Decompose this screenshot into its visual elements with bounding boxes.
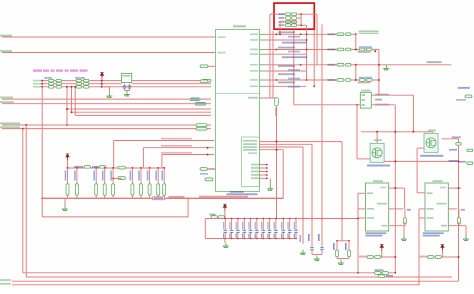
junction bus/capbus bbox=[357, 218, 359, 220]
wire phase C-D join bbox=[355, 65, 357, 80]
cap name text 10 bbox=[281, 234, 282, 239]
wire spi stub bbox=[208, 168, 216, 170]
resistor R11 b bbox=[56, 83, 62, 86]
cap value cluster 4 bbox=[288, 78, 300, 80]
junction pulldown/pwm1 bbox=[276, 141, 278, 143]
wire pwm echo 1 bbox=[260, 141, 343, 143]
power flag VDD mcu bbox=[100, 72, 104, 78]
net name PWM_DRIVER_GS_GA2_H bbox=[161, 152, 192, 154]
wire pwr vertical x42 bbox=[41, 87, 43, 217]
junction bootL2 bbox=[41, 83, 43, 85]
wire shunt row1 out bbox=[297, 13, 317, 15]
capacitor C101 b bbox=[366, 48, 372, 51]
label 90_W bbox=[375, 99, 382, 101]
cap value text 10 bbox=[281, 222, 282, 230]
junction phase vertical C bbox=[378, 64, 380, 66]
junction pwm3 bbox=[207, 154, 209, 156]
ground tail B bbox=[314, 256, 320, 261]
capacitor C300 bbox=[224, 219, 226, 239]
pin stub y71 bbox=[260, 70, 267, 72]
resistor value text b x149.6 bbox=[147, 171, 149, 181]
wire gnd pin 168.0 bbox=[260, 167, 267, 169]
net flag FAULT_A bbox=[195, 102, 206, 105]
capacitor C303 bbox=[243, 219, 245, 239]
pin GATE bbox=[367, 192, 373, 194]
pin stub y34.3 bbox=[260, 33, 267, 35]
connector pill a bbox=[375, 272, 382, 275]
wire bottom rail 2 bbox=[26, 276, 452, 278]
cap name text 4 bbox=[242, 234, 243, 239]
junction echo2/capbus bbox=[311, 218, 313, 220]
cap value text 2 bbox=[229, 222, 230, 230]
wire gnd pin 178.3 bbox=[260, 177, 267, 179]
junction rail x113.1 bbox=[112, 167, 114, 169]
cap value text 8 bbox=[267, 222, 268, 230]
cap name text 12 bbox=[294, 234, 295, 239]
label IC506 bbox=[373, 180, 383, 182]
pin stub y86.3 bbox=[260, 85, 267, 87]
wire tp A link bbox=[381, 256, 395, 258]
part number IC505 row2 bbox=[423, 235, 440, 237]
net name cluster 1 bbox=[278, 31, 295, 33]
wire net L_PWM_B bbox=[2, 52, 216, 54]
IC IC506 half-bridge bbox=[365, 183, 388, 231]
wire IC506 pgnd in bbox=[358, 217, 365, 219]
connector pill c bbox=[378, 275, 385, 278]
resistor value text x76.9 bbox=[74, 171, 76, 181]
junction pulldown/capbus bbox=[276, 218, 278, 220]
junction frame/fet drop bbox=[356, 104, 358, 106]
wire nSLEEP bbox=[72, 111, 212, 113]
wire pwm echo 3 drop bbox=[302, 147, 304, 244]
part number IC505 row1 bbox=[423, 232, 444, 234]
power flag VM tp B bbox=[441, 244, 445, 250]
label IC401 bbox=[233, 25, 246, 27]
capacitor C302 bbox=[237, 219, 239, 239]
ferrite bead FB4 bbox=[337, 79, 344, 82]
part number T4B8 text bbox=[420, 155, 443, 157]
label BOOT2 bbox=[33, 86, 41, 88]
junction echo3/capbus bbox=[302, 218, 304, 220]
resistor value text x104.7 bbox=[102, 171, 104, 181]
junction sense 306.6,49.5 bbox=[306, 49, 308, 51]
resistor R21 b bbox=[84, 83, 90, 86]
label C10 cluster 1 bbox=[359, 46, 372, 48]
resistor shunt R30 b bbox=[291, 13, 297, 16]
resistor gate b x132.4 bbox=[131, 168, 134, 198]
wire pwm driver 1 bbox=[114, 140, 214, 142]
wire gnd pins drop bbox=[269, 178, 271, 185]
junction shunt top bbox=[300, 13, 302, 15]
junction cap top 4 bbox=[243, 218, 245, 220]
ground cap bank bbox=[223, 243, 229, 248]
resistor value vertical text bbox=[275, 108, 277, 117]
wire buck fb bbox=[371, 104, 395, 106]
junction cap bottom 3 bbox=[237, 238, 239, 240]
testpoint TP50b pill2 bbox=[435, 256, 442, 259]
wire IC505 gate out bbox=[448, 208, 457, 210]
pin name SET_B bbox=[250, 53, 258, 55]
junction gnd pin 168.0 bbox=[266, 167, 268, 169]
wire fet2 top stub bbox=[432, 132, 434, 134]
label 17B8 bbox=[361, 90, 370, 92]
capacitor C102 b bbox=[366, 79, 372, 82]
pin name PWM_A_H bbox=[243, 140, 257, 142]
pin name GND 164.6 bbox=[251, 164, 259, 166]
net name cluster 2 bbox=[278, 47, 295, 49]
resistor gate b x149.6 bbox=[148, 168, 151, 198]
wire sense vertical c bbox=[316, 14, 318, 65]
wire fet2 drain out bbox=[442, 138, 459, 140]
capacitor C306 bbox=[262, 219, 264, 239]
wire reset vertical run bbox=[25, 125, 27, 277]
label R105 rail bbox=[74, 166, 83, 168]
label RN1 value bbox=[44, 77, 52, 79]
label BOOT1 bbox=[33, 83, 41, 85]
net label L_PWM_B bbox=[0, 50, 12, 52]
wire sense vertical d bbox=[321, 24, 323, 243]
wire frame left vertical 2 bbox=[272, 31, 274, 98]
resistor shunt R31 a bbox=[285, 17, 291, 20]
label LQ2 bbox=[328, 49, 336, 51]
shunt label row 3 bbox=[278, 21, 284, 23]
resistor value text b x164.2 bbox=[161, 171, 163, 181]
pin OULOFF bbox=[437, 203, 447, 205]
junction rail b x149.6 bbox=[149, 167, 151, 169]
wire cap bus left join bbox=[204, 219, 206, 239]
part number T4B7 text bbox=[367, 165, 390, 167]
cap value cluster 5 bbox=[288, 86, 300, 88]
capacitor C311 bbox=[295, 219, 297, 239]
net label L_FAULT_A bbox=[0, 101, 14, 103]
resistor shunt R32 a bbox=[285, 21, 291, 24]
junction sense 276.4,49.5 bbox=[276, 49, 278, 51]
net name 2_1_GA_41 bbox=[359, 30, 379, 32]
resistor R11 a bbox=[49, 83, 55, 86]
part number IC506 row1 bbox=[365, 232, 386, 234]
junction sensed/capbus bbox=[321, 218, 323, 220]
resistor R22 a bbox=[76, 86, 82, 89]
junction tp A bbox=[394, 256, 396, 258]
net name cluster 5 bbox=[278, 82, 295, 84]
IC U401 gate driver main outline bbox=[216, 30, 260, 192]
shunt label row 2 bbox=[278, 17, 284, 19]
cap value text 12 bbox=[294, 222, 295, 230]
wire phase join vertical bbox=[378, 50, 380, 96]
wire pwm echo 3 bbox=[260, 146, 304, 148]
wire SH A jog drop bbox=[404, 188, 406, 209]
wire OUT_D bbox=[267, 79, 338, 81]
junction rail1/bus bbox=[357, 272, 359, 274]
junction sense 276.4,80 bbox=[276, 79, 278, 81]
wire net L_PWM_A bbox=[2, 36, 216, 38]
wire SET_A bbox=[267, 39, 307, 41]
text tail B1 bbox=[308, 234, 310, 241]
junction cap top 2 bbox=[231, 218, 233, 220]
ground tail A bbox=[300, 250, 306, 255]
pin name OUT_D bbox=[250, 79, 258, 81]
label C10 below 2 bbox=[358, 82, 371, 84]
junction phase B bbox=[355, 49, 357, 51]
junction phase gnd bbox=[374, 50, 376, 52]
junction phase D bbox=[355, 79, 357, 81]
ground IC506 bbox=[401, 236, 407, 241]
junction cap top 7 bbox=[262, 218, 264, 220]
pin PGND bbox=[367, 217, 374, 219]
wire buck out drop bbox=[412, 95, 414, 132]
text LINE_A bbox=[191, 98, 199, 100]
wire boot row3 to IC bbox=[102, 86, 211, 88]
pin DRAIN bbox=[427, 208, 434, 210]
resistor R NC pulldown bbox=[275, 98, 279, 106]
junction vdd row1 bbox=[101, 80, 103, 82]
junction reset tee bbox=[25, 124, 27, 126]
wire right edge long vertical bbox=[458, 139, 460, 281]
resistor R12 a bbox=[49, 86, 55, 89]
label RN2 value bbox=[75, 77, 85, 79]
junction vdd row3 bbox=[101, 86, 103, 88]
testpoint TP50a pill bbox=[367, 256, 374, 259]
IC U401 part number row1 bbox=[230, 191, 244, 193]
net name cluster 4 bbox=[278, 73, 295, 75]
wire tp B link bbox=[442, 256, 459, 258]
resistor gate x96.2 bbox=[95, 168, 98, 198]
power flag VM gate bbox=[66, 154, 70, 160]
wire vm tp A drop bbox=[381, 251, 383, 257]
wire net L_LINE_A bbox=[2, 98, 211, 100]
resistor R12 b bbox=[56, 86, 62, 89]
cap value text 9 bbox=[274, 222, 275, 230]
shunt label row 4 bbox=[278, 24, 284, 26]
capacitor C307 bbox=[269, 219, 271, 239]
wire gate rail 2 bbox=[113, 178, 122, 180]
resistor value text x113.1 bbox=[110, 171, 112, 181]
wire led stub bbox=[208, 65, 216, 67]
junction phase vertical D bbox=[378, 79, 380, 81]
junction cap top 1 bbox=[224, 218, 226, 220]
wire tail C top bbox=[337, 240, 349, 242]
cap value text 1 bbox=[223, 222, 224, 230]
net name 2_1_B7_98 bbox=[375, 104, 389, 106]
junction cap bottom 11 bbox=[289, 238, 291, 240]
wire fet2 source drop bbox=[416, 148, 418, 193]
wire phase B out bbox=[351, 49, 379, 51]
cap name text 9 bbox=[274, 234, 275, 239]
junction rail x67.5 bbox=[67, 167, 69, 169]
wire nIRQ drop bbox=[66, 87, 68, 125]
pin name SC_A2 bbox=[248, 97, 258, 99]
wire net L_FAULT_A bbox=[2, 103, 211, 105]
label LQ3 bbox=[328, 64, 336, 66]
buck pin arrow 2 bbox=[362, 99, 366, 101]
cap name text 5 bbox=[248, 234, 249, 239]
wire boot row1 bbox=[41, 80, 122, 82]
wire frame left vertical bbox=[269, 14, 271, 98]
ground gate cluster bbox=[62, 206, 68, 211]
pin name OUT_A bbox=[250, 33, 258, 35]
capacitor C3 bbox=[346, 63, 352, 66]
resistor shunt R33 b bbox=[291, 24, 297, 27]
wire SC_A2 bbox=[260, 97, 277, 99]
capacitor C310 bbox=[289, 219, 291, 239]
wire IC506 SH out bbox=[389, 187, 398, 189]
label R gate 505 bbox=[461, 209, 465, 211]
wire nIRQ bbox=[67, 108, 211, 110]
label TP50a bbox=[359, 256, 367, 258]
label L10b bbox=[449, 160, 458, 162]
resistor R10 b bbox=[56, 79, 62, 82]
wire xtal cap join bbox=[125, 90, 130, 92]
wire res to gnd row bbox=[404, 222, 406, 226]
part number cluster 2 bbox=[282, 56, 307, 58]
junction rail1 end bbox=[394, 272, 396, 274]
wire VM bus bbox=[42, 197, 283, 199]
wire nSLEEP drop bbox=[71, 87, 73, 112]
resistor pill rail a bbox=[84, 166, 91, 169]
resistor tail C2 bbox=[348, 241, 351, 259]
wire shunt join vertical bbox=[300, 14, 302, 25]
net flag POWERDIS bbox=[196, 127, 207, 130]
wire buck fb / SH long vertical bbox=[394, 105, 396, 273]
capacitor C304 bbox=[250, 219, 252, 239]
net flag LED bbox=[200, 65, 208, 68]
label L10a bbox=[449, 149, 457, 151]
capacitor C308 bbox=[275, 219, 277, 239]
junction cap top 11 bbox=[289, 218, 291, 220]
cap value text 5 bbox=[248, 222, 249, 230]
wire pwm echo 1 drop bbox=[341, 142, 343, 241]
wire IC505 SH out bbox=[448, 187, 461, 189]
wire cap bus top bbox=[205, 218, 358, 220]
junction fet row bbox=[394, 160, 396, 162]
cap value cluster 3 bbox=[288, 69, 300, 71]
junction fet rail mid bbox=[394, 131, 396, 133]
wire gnd drop bbox=[109, 87, 111, 93]
net name on bus short bbox=[169, 196, 185, 198]
text FAULT_A bbox=[196, 103, 205, 105]
junction sense 300.6,64.8 bbox=[300, 64, 302, 66]
junction cap top 5 bbox=[250, 218, 252, 220]
junction boot drop3 bbox=[74, 86, 76, 88]
junction cap bottom 8 bbox=[269, 238, 271, 240]
junction pulldown/pwm4 bbox=[276, 149, 278, 151]
junction pwm2 bbox=[207, 147, 209, 149]
wire pwm driver 3 drop bbox=[161, 155, 163, 169]
cap value text 6 bbox=[255, 222, 256, 230]
resistor value text b x141 bbox=[138, 171, 140, 181]
wire frame drop to fet bbox=[356, 105, 358, 159]
wire IC506 gate in bbox=[358, 192, 365, 194]
junction cap bottom 5 bbox=[250, 238, 252, 240]
wire bottom rail 1 bbox=[23, 272, 396, 274]
text tail C1 bbox=[333, 243, 335, 250]
wire fet1 source in bbox=[357, 158, 370, 160]
ground IC401 bbox=[267, 185, 273, 190]
wire cap bus bottom bbox=[205, 238, 296, 240]
value buck L bbox=[456, 99, 466, 101]
pin stub y64.8 bbox=[260, 64, 267, 66]
junction fet1 gate bbox=[376, 131, 378, 133]
wire net L_POWERDIS bbox=[2, 128, 211, 130]
wire phase D out bbox=[351, 79, 379, 81]
annotation M3.0 DIV*1010 <- 17TB (default) bbox=[33, 70, 42, 72]
text in bus pill bbox=[154, 197, 163, 199]
wire pwm driver 3 bbox=[162, 154, 214, 156]
net flag pill on VM bus bbox=[152, 197, 165, 200]
wire shunt row4 out bbox=[297, 24, 307, 26]
cap value text 11 bbox=[287, 222, 288, 230]
ground phase filter bbox=[383, 65, 389, 70]
resistor R10 a bbox=[49, 79, 55, 82]
wire fet2 source out bbox=[417, 147, 424, 149]
junction buck/fet rail bbox=[412, 131, 414, 133]
power flag VM tp A bbox=[380, 244, 384, 250]
net name 2_1_B7_12 bbox=[375, 94, 389, 96]
label L10b val bbox=[459, 161, 466, 163]
label T4B8 bbox=[428, 130, 436, 132]
wire XTAL1 bbox=[132, 80, 211, 82]
label IC505 bbox=[433, 180, 443, 182]
IC U17B8 buck bbox=[360, 92, 371, 108]
junction echo1/capbus bbox=[341, 218, 343, 220]
wire pwm echo 4 bbox=[260, 149, 284, 151]
wire vm to rail bbox=[67, 160, 69, 168]
wire sense vertical a bbox=[306, 25, 308, 80]
wire OUT_C bbox=[267, 64, 338, 66]
net label rail 3 bbox=[0, 279, 11, 281]
junction cap top 8 bbox=[269, 218, 271, 220]
IC U401 inner pad box bbox=[242, 137, 260, 186]
junction phase C bbox=[355, 64, 357, 66]
transistor Q T4B7 bbox=[370, 143, 384, 162]
wire gnd pin 175.0 bbox=[260, 174, 267, 176]
resistor gate x76.9 bbox=[75, 168, 78, 198]
testpoint TP50a pill2 bbox=[375, 256, 382, 259]
junction sense 306.6,80 bbox=[306, 79, 308, 81]
wire gnd stub 505 bbox=[465, 226, 467, 236]
underline 2_1_GA_41 bbox=[359, 32, 379, 34]
junction sense 314.2,86.3 bbox=[313, 85, 315, 87]
junction tp B bbox=[458, 256, 460, 258]
junction cap bottom 2 bbox=[231, 238, 233, 240]
net flag RESET_AB bbox=[196, 124, 207, 127]
capacitor C101 a bbox=[359, 48, 365, 51]
junction tail C1 bbox=[336, 240, 338, 242]
cap name text 3 bbox=[236, 234, 237, 239]
wire gate rail bbox=[68, 167, 165, 169]
label C10 below 1 bbox=[358, 51, 371, 53]
junction bootL1 bbox=[41, 80, 43, 82]
text SPI b bbox=[200, 173, 208, 175]
net label L_LINE_A bbox=[0, 97, 13, 99]
junction x42/VM bus bbox=[41, 197, 43, 199]
wire vm tp B drop bbox=[441, 251, 443, 257]
text tail B2 bbox=[318, 234, 320, 241]
junction cap top 6 bbox=[256, 218, 258, 220]
pin DRAIN bbox=[367, 208, 374, 210]
pin name PWM_A bbox=[218, 36, 226, 38]
resistor R106 flag bbox=[118, 177, 126, 180]
resistor R22 b bbox=[84, 86, 90, 89]
resistor gate b x158.2 bbox=[157, 168, 160, 198]
wire SH A jog bbox=[396, 187, 405, 189]
pin GND bbox=[381, 225, 387, 227]
junction rail b x158.2 bbox=[157, 167, 159, 169]
junction rail x104.7 bbox=[104, 167, 106, 169]
junction tail C2 bbox=[348, 240, 350, 242]
pin stub y40 bbox=[260, 39, 267, 41]
resistor shunt R30 a bbox=[285, 13, 291, 16]
